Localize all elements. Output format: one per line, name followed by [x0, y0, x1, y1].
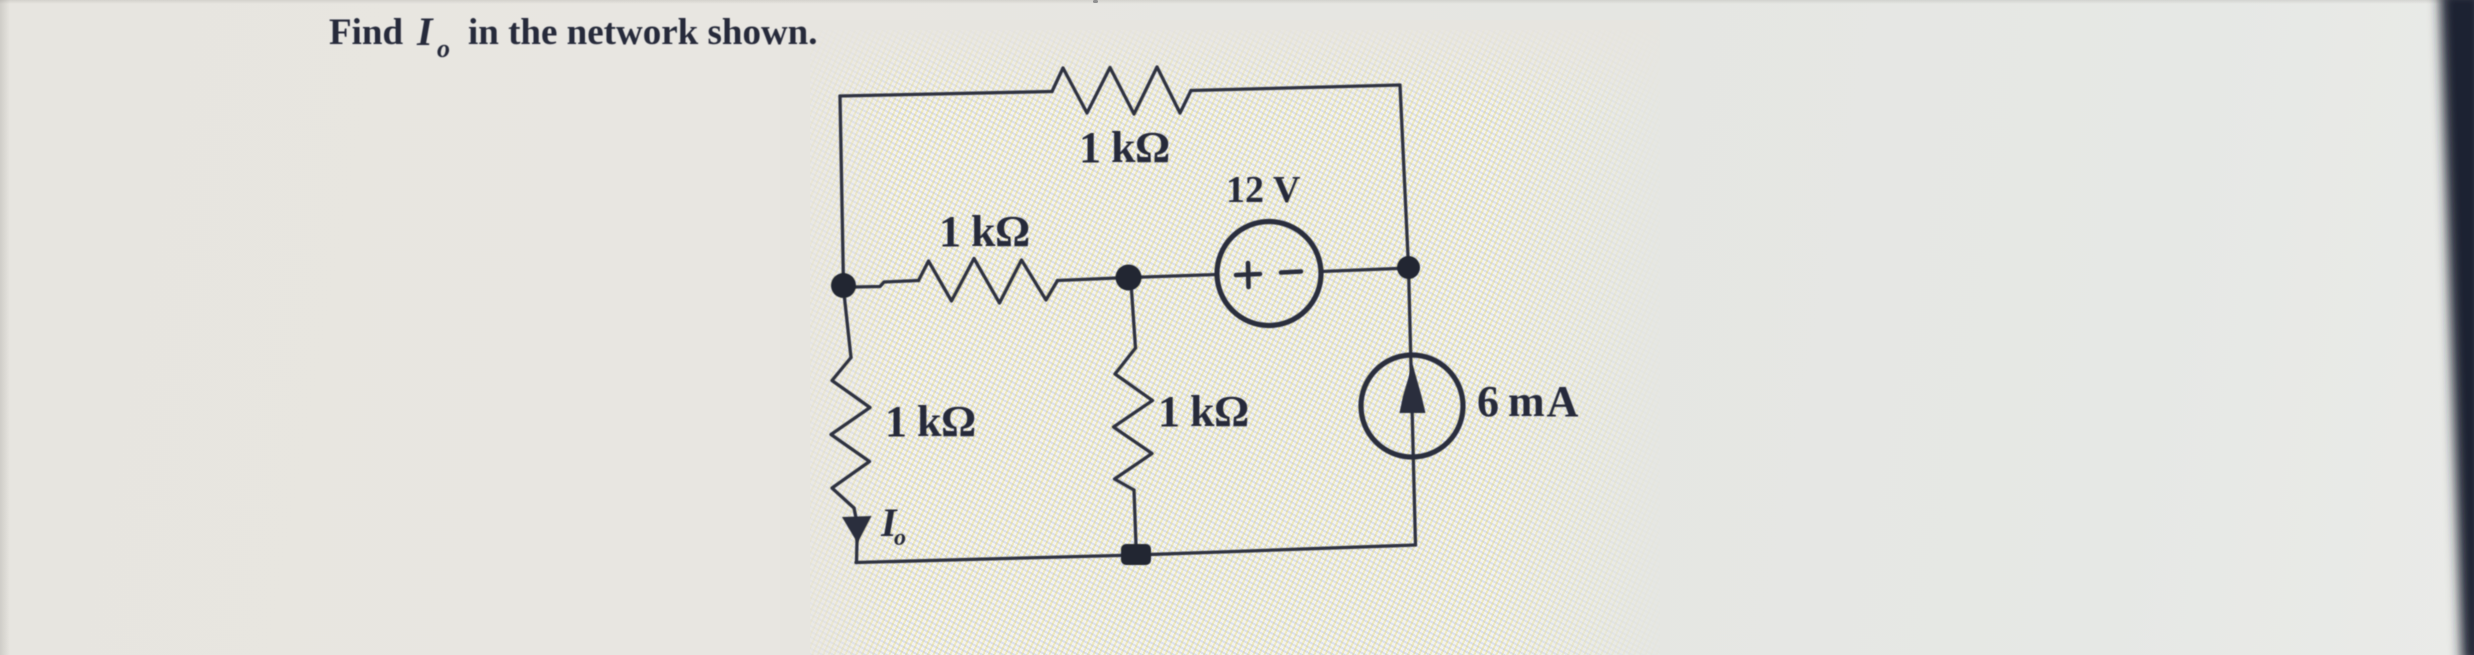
wire: bottom rail [856, 545, 1416, 563]
node E junction dot [1397, 256, 1420, 279]
resistor R1 1kOhm top zigzag [1052, 67, 1191, 114]
svg-text:in the network shown.: in the network shown. [468, 12, 818, 53]
svg-text:Find: Find [329, 12, 403, 53]
wire: node B to voltage source V1 [1129, 275, 1217, 278]
resistor R4 1kOhm middle vertical zigzag [1114, 348, 1153, 490]
wire: V1 to node E [1321, 268, 1409, 272]
resistor R3 1kOhm left vertical zigzag [831, 358, 870, 509]
dark screen bezel wedge on right edge [2440, 0, 2474, 655]
wire: below arrow to bottom-left corner [855, 540, 859, 563]
wire: top-left horizontal run [840, 92, 1052, 97]
V1 plus sign [1236, 263, 1301, 287]
wire: R3 to arrow [854, 508, 856, 518]
current source arrow up [1400, 364, 1426, 413]
wire: R4 to bottom node D [1134, 490, 1136, 545]
wire: middle rail node A to resistor R2 [853, 281, 919, 288]
wire: node A down to resistor R3 [845, 298, 852, 358]
svg-text:1 kΩ: 1 kΩ [885, 397, 976, 446]
svg-text:1 kΩ: 1 kΩ [1158, 387, 1249, 436]
wire: R2 to node B [1058, 278, 1130, 281]
dust speck top edge [1093, 0, 1098, 3]
V1 minus sign [1281, 272, 1301, 273]
Io arrow head pointing down [842, 516, 872, 543]
node B junction dot [1116, 265, 1142, 291]
svg-text:12 V: 12 V [1226, 169, 1301, 211]
node A junction dot [831, 273, 856, 298]
wire: R1 to top-right corner and right rail down through current source to bottom-right [1191, 85, 1416, 545]
svg-text:I: I [416, 9, 434, 54]
svg-text:1 kΩ: 1 kΩ [939, 207, 1030, 256]
current source I1 6mA circle [1361, 355, 1463, 457]
node D junction dot (square) [1121, 544, 1151, 565]
resistor R2 1kOhm middle horizontal zigzag [919, 259, 1058, 304]
voltage source V1 12V circle [1217, 222, 1321, 326]
svg-text:6 mA: 6 mA [1477, 377, 1579, 426]
wire: node B down to resistor R4 [1132, 290, 1136, 348]
svg-text:o: o [437, 34, 450, 63]
svg-text:o: o [894, 525, 906, 551]
wire: left rail from top-left corner to node A [840, 96, 844, 286]
svg-text:1 kΩ: 1 kΩ [1079, 123, 1170, 172]
